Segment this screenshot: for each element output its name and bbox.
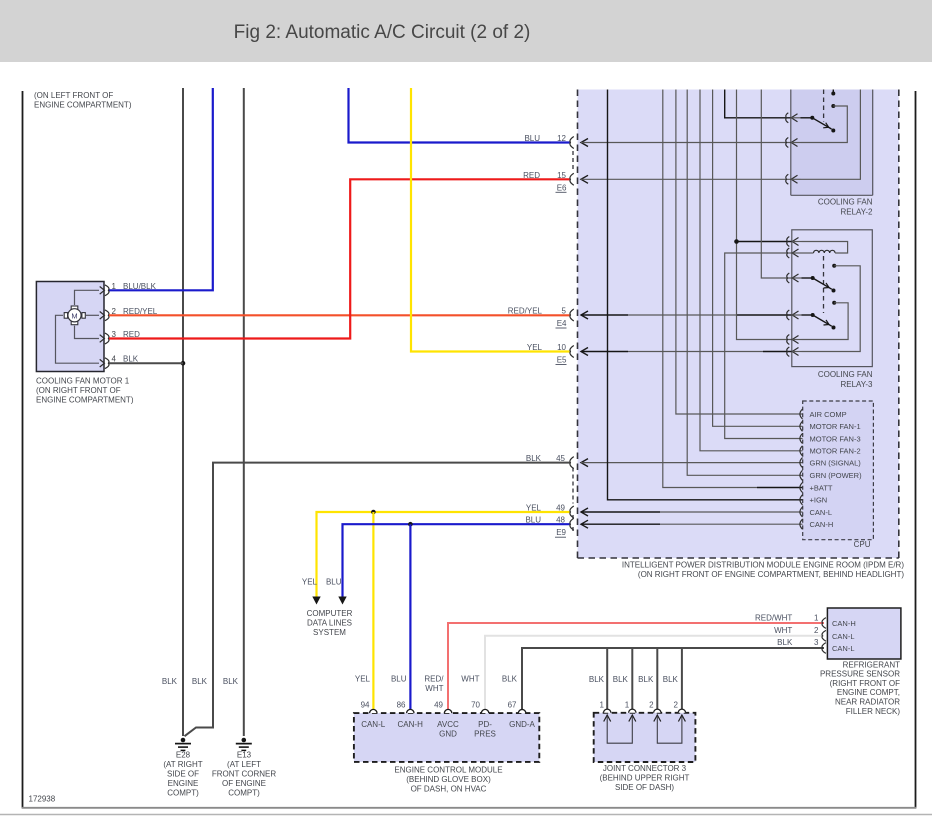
relay-2 NC contact to top xyxy=(831,90,835,96)
svg-text:WHT: WHT xyxy=(461,675,479,684)
svg-text:MOTOR FAN-3: MOTOR FAN-3 xyxy=(810,434,861,443)
junction CAN-H branch xyxy=(408,522,413,527)
svg-text:REFRIGERANT: REFRIGERANT xyxy=(843,660,900,669)
svg-text:3: 3 xyxy=(814,638,819,647)
svg-text:2: 2 xyxy=(814,626,819,635)
svg-text:WHT: WHT xyxy=(774,626,792,635)
relay-3 pin 4 connector xyxy=(787,310,802,320)
connector pin 45 (BLK) xyxy=(526,454,574,469)
caption JC3 xyxy=(600,764,690,792)
svg-text:E9: E9 xyxy=(556,528,566,537)
relay-2 switch actuation (dashed) xyxy=(823,90,825,123)
svg-text:GND-A: GND-A xyxy=(509,720,535,729)
wire lane AIR COMP xyxy=(676,90,803,415)
connector E5 pin 10 (YEL) xyxy=(527,343,574,358)
label WHT (sensor 2) xyxy=(774,626,792,635)
sensor pin 1 CAN-H xyxy=(814,613,856,628)
pin number 1 / label BLU/BLK xyxy=(112,282,157,291)
svg-text:PRES: PRES xyxy=(474,730,496,739)
svg-text:BLK: BLK xyxy=(613,675,629,684)
svg-text:ENGINE: ENGINE xyxy=(168,779,199,788)
wire IPDM pin5 to relay-3 pin4 xyxy=(581,311,792,319)
ECM pin 67 GND-A xyxy=(508,701,536,730)
svg-text:ENGINE COMPT,: ENGINE COMPT, xyxy=(837,688,900,697)
ground E13 xyxy=(212,738,277,798)
svg-text:AIR COMP: AIR COMP xyxy=(810,410,847,419)
svg-text:48: 48 xyxy=(556,516,565,525)
relay K2 cooling fan relay-2 xyxy=(791,90,873,196)
JC3 pin 1b xyxy=(625,700,636,721)
CPU pin MOTOR FAN-1 xyxy=(800,421,861,431)
svg-text:1: 1 xyxy=(814,613,819,622)
CPU pin +IGN xyxy=(800,495,827,505)
page separator line xyxy=(0,814,932,816)
wire BLK 45 from IPDM to ground E28 xyxy=(185,463,570,737)
svg-text:INTELLIGENT POWER DISTRIBUTION: INTELLIGENT POWER DISTRIBUTION MODULE EN… xyxy=(622,561,904,570)
ground E28 xyxy=(163,738,202,798)
wire lane relay-3 pin3 feed xyxy=(761,90,792,279)
wire WHT ECM pin70 to sensor pin2 xyxy=(485,636,824,710)
relay-3 coil xyxy=(802,242,848,254)
wire relay-3 pin1 stub xyxy=(737,241,792,243)
svg-text:BLK: BLK xyxy=(162,677,178,686)
svg-text:E6: E6 xyxy=(557,183,567,192)
svg-text:ENGINE COMPARTMENT): ENGINE COMPARTMENT) xyxy=(36,396,134,405)
svg-text:49: 49 xyxy=(556,504,565,513)
wire motor internal pin4 xyxy=(56,315,100,363)
svg-text:MOTOR FAN-2: MOTOR FAN-2 xyxy=(810,447,861,456)
svg-text:OF ENGINE: OF ENGINE xyxy=(222,779,266,788)
svg-text:GRN (SIGNAL): GRN (SIGNAL) xyxy=(810,458,862,467)
svg-text:49: 49 xyxy=(434,701,443,710)
svg-text:(ON RIGHT FRONT OF ENGINE COMP: (ON RIGHT FRONT OF ENGINE COMPARTMENT, B… xyxy=(638,570,904,579)
refrigerant pressure sensor box xyxy=(827,608,901,659)
CPU pin CAN-H xyxy=(800,519,833,529)
label RED/WHT (ECM 49) xyxy=(424,675,444,694)
svg-text:BLU: BLU xyxy=(524,134,540,143)
svg-text:86: 86 xyxy=(397,701,406,710)
ECM pin 94 CAN-L xyxy=(361,701,386,730)
motor pin 4 connector xyxy=(100,358,109,369)
wire IPDM pin15 to relay-2 pin3 xyxy=(581,175,791,183)
label BLK (sensor 3) xyxy=(777,638,793,647)
relay-2 pin 2 connector xyxy=(786,138,801,148)
svg-text:10: 10 xyxy=(557,343,566,352)
connector id E4 xyxy=(556,319,568,328)
relay-2 NO contact to pin2 xyxy=(801,104,848,143)
label BLK (joint pin 2b) xyxy=(663,675,679,684)
pin number 3 / label RED xyxy=(112,330,141,339)
wire BLK motor pin4 to ground junction xyxy=(109,362,183,364)
svg-text:BLU: BLU xyxy=(326,578,342,587)
svg-text:COOLING FAN: COOLING FAN xyxy=(818,370,873,379)
CPU pin +BATT xyxy=(800,483,833,493)
wire BLK joint connector pin 1b xyxy=(631,648,633,710)
relay-3 actuation line (dashed) xyxy=(823,256,825,313)
relay-3 pin 5 connector xyxy=(787,335,802,345)
svg-text:1: 1 xyxy=(600,700,605,709)
wire BLK vertical to E13 xyxy=(243,88,245,736)
wire BLK joint connector pin 2b xyxy=(681,648,683,710)
svg-text:AVCC: AVCC xyxy=(437,720,459,729)
svg-text:M: M xyxy=(71,311,77,320)
caption cooling fan motor 1 xyxy=(36,377,134,405)
motor pin 3 connector xyxy=(100,333,109,344)
ECM pin 49 AVCC GND xyxy=(434,701,459,739)
svg-text:BLK: BLK xyxy=(638,675,654,684)
svg-text:70: 70 xyxy=(471,701,480,710)
svg-text:CAN-L: CAN-L xyxy=(810,508,833,517)
caption relay-3 xyxy=(818,370,873,389)
svg-text:(AT LEFT: (AT LEFT xyxy=(227,760,261,769)
CPU pin AIR COMP xyxy=(800,409,847,419)
wire lane +IGN xyxy=(608,90,803,500)
ECM pin 70 PD-PRES xyxy=(471,701,496,739)
wire IPDM pin12 to relay-2 pin2 xyxy=(581,139,791,147)
wire lane MOTOR FAN-2 xyxy=(700,90,803,451)
svg-text:94: 94 xyxy=(361,701,370,710)
svg-text:BLK: BLK xyxy=(192,677,208,686)
label WHT (ECM 70) xyxy=(461,675,479,684)
svg-text:RED/WHT: RED/WHT xyxy=(755,613,792,622)
ECM pin 86 CAN-H xyxy=(397,701,423,730)
junction relay-3 pin1 lane xyxy=(734,239,739,244)
connector id E5 xyxy=(556,356,568,365)
wire relay-3 pin2 to CPU MOTOR FAN-3 xyxy=(725,253,803,439)
wire IPDM pin49 to CPU CAN-L xyxy=(581,508,803,516)
caption refrigerant pressure sensor xyxy=(820,660,900,716)
wire motor internal pin2 xyxy=(86,314,99,316)
wire motor internal pin1 xyxy=(75,290,100,305)
wire RED/YEL motor pin2 to IPDM pin5 xyxy=(109,314,570,316)
wire motor internal pin3 xyxy=(75,326,100,339)
caption ECM xyxy=(394,765,502,793)
svg-text:COOLING FAN: COOLING FAN xyxy=(818,197,873,206)
wire BLK joint connector pin 2a xyxy=(656,648,658,710)
svg-text:BLK: BLK xyxy=(502,675,518,684)
svg-text:CAN-H: CAN-H xyxy=(398,720,424,729)
ECM engine control module box xyxy=(354,713,539,762)
svg-text:BLU: BLU xyxy=(525,516,541,525)
CPU pin GRN (SIGNAL) xyxy=(800,458,861,468)
svg-text:RED/YEL: RED/YEL xyxy=(508,307,543,316)
svg-text:BLU: BLU xyxy=(391,675,407,684)
connector E6 pin 15 (RED) xyxy=(523,171,574,186)
label BLU (data line) xyxy=(326,578,342,587)
relay-3 pin 2 connector xyxy=(787,248,802,258)
wire IPDM pin48 to CPU CAN-H xyxy=(581,520,803,528)
connector E9 pin 48 (BLU) xyxy=(525,516,573,531)
svg-text:YEL: YEL xyxy=(527,343,543,352)
svg-text:E13: E13 xyxy=(237,751,252,760)
svg-text:(BEHIND GLOVE BOX): (BEHIND GLOVE BOX) xyxy=(406,775,491,784)
wire lane +BATT xyxy=(663,90,803,488)
JC3 link pins 1-1 xyxy=(607,716,632,743)
node computer data lines system xyxy=(307,609,353,637)
wire BLU CAN-H from IPDM to data-lines arrow xyxy=(343,524,570,598)
JC3 link pins 2-2 xyxy=(657,716,682,743)
svg-text:BLK: BLK xyxy=(777,638,793,647)
motor symbol M xyxy=(64,306,85,325)
relay-3 switch B contact to pin5 xyxy=(802,301,849,340)
relay-2 switch xyxy=(801,116,836,133)
svg-text:YEL: YEL xyxy=(355,675,371,684)
svg-text:ENGINE COMPARTMENT): ENGINE COMPARTMENT) xyxy=(34,101,132,110)
svg-text:RED/: RED/ xyxy=(424,675,444,684)
wire YEL CAN-L from IPDM to data-lines arrow xyxy=(317,512,570,599)
svg-text:DATA LINES: DATA LINES xyxy=(307,619,352,628)
svg-text:1: 1 xyxy=(112,282,117,291)
wire YEL from top to IPDM pin10 xyxy=(411,88,570,352)
svg-text:GND: GND xyxy=(439,730,457,739)
svg-text:+IGN: +IGN xyxy=(810,496,828,505)
svg-text:RELAY-3: RELAY-3 xyxy=(840,380,873,389)
IPDM E/R box xyxy=(578,90,899,559)
svg-text:BLK: BLK xyxy=(663,675,679,684)
JC3 pin 2b xyxy=(673,700,685,721)
svg-text:(BEHIND UPPER RIGHT: (BEHIND UPPER RIGHT xyxy=(600,774,690,783)
svg-text:Fig 2: Automatic A/C Circuit (: Fig 2: Automatic A/C Circuit (2 of 2) xyxy=(234,22,531,43)
label BLK (joint pin 1b) xyxy=(613,675,629,684)
svg-text:MOTOR FAN-1: MOTOR FAN-1 xyxy=(810,422,861,431)
svg-text:E28: E28 xyxy=(176,751,191,760)
sensor pin 2 CAN-L xyxy=(814,626,854,641)
svg-text:2: 2 xyxy=(649,700,654,709)
label BLK (joint pin 2a) xyxy=(638,675,654,684)
JC3 pin 1a xyxy=(600,700,611,721)
wire RED/WHT ECM pin49 to sensor pin1 xyxy=(448,623,824,710)
svg-text:67: 67 xyxy=(508,701,517,710)
relay-3 switch A contact to pin6 xyxy=(802,264,861,352)
junction CAN-L branch xyxy=(371,510,376,515)
svg-text:PD-: PD- xyxy=(478,720,492,729)
svg-text:JOINT CONNECTOR 3: JOINT CONNECTOR 3 xyxy=(603,764,687,773)
svg-text:E5: E5 xyxy=(557,356,567,365)
svg-text:+BATT: +BATT xyxy=(810,483,833,492)
wire IPDM pin10 to relay-3 pin6 xyxy=(581,348,792,356)
svg-text:CAN-L: CAN-L xyxy=(832,632,855,641)
svg-text:GRN (POWER): GRN (POWER) xyxy=(810,471,863,480)
wire relay-2 pin1 feed xyxy=(725,90,791,118)
svg-text:45: 45 xyxy=(556,454,565,463)
relay-2 pin 3 connector xyxy=(786,174,801,184)
svg-text:OF DASH, ON HVAC: OF DASH, ON HVAC xyxy=(411,784,487,793)
JC3 pin 2a xyxy=(649,700,661,721)
wire YEL CAN-L branch to ECM pin 94 xyxy=(372,512,374,710)
arrow to computer data lines (yellow) xyxy=(312,597,320,605)
relay-3 switch A xyxy=(802,276,836,293)
wire BLU/BLK vertical to motor pin 1 xyxy=(109,88,213,290)
title band xyxy=(0,0,932,62)
pin number 4 / label BLK xyxy=(112,355,139,364)
wire BLK joint connector pin 1a xyxy=(606,648,608,710)
svg-text:BLK: BLK xyxy=(589,675,605,684)
caption IPDM E/R xyxy=(622,561,904,580)
motor M1 cooling fan motor 1 xyxy=(36,282,104,372)
svg-text:(RIGHT FRONT OF: (RIGHT FRONT OF xyxy=(830,679,900,688)
connector E4 pin 5 (RED/YEL) xyxy=(508,307,574,322)
motor pin 2 connector xyxy=(100,310,109,321)
svg-text:CPU: CPU xyxy=(854,540,871,549)
relay-3 pin 1 connector xyxy=(787,237,802,247)
svg-text:RED: RED xyxy=(523,171,540,180)
label BLU (ECM 86) xyxy=(391,675,407,684)
connector E9 pin 49 (YEL) xyxy=(526,504,574,519)
wire RED motor pin3 to IPDM pin15 xyxy=(109,179,570,338)
label BLK (ECM 67) xyxy=(502,675,518,684)
sensor pin 3 CAN-L xyxy=(814,638,854,653)
svg-text:COMPT): COMPT) xyxy=(167,789,199,798)
svg-text:E4: E4 xyxy=(557,319,567,328)
CPU box xyxy=(803,401,874,540)
svg-text:CAN-L: CAN-L xyxy=(832,644,855,653)
connector E6 pin 12 (BLU) xyxy=(524,134,573,149)
label YEL (ECM 94) xyxy=(355,675,371,684)
wire lane relay-3 pin1/pin5 xyxy=(737,90,792,340)
svg-text:COOLING FAN MOTOR 1: COOLING FAN MOTOR 1 xyxy=(36,377,130,386)
relay-3 switch B xyxy=(802,313,836,330)
junction motor pin4 / ground line xyxy=(181,361,186,366)
svg-text:1: 1 xyxy=(625,700,630,709)
svg-text:ENGINE CONTROL MODULE: ENGINE CONTROL MODULE xyxy=(394,765,502,774)
relay-3 pin 6 connector xyxy=(787,347,802,357)
svg-text:SIDE OF: SIDE OF xyxy=(167,770,199,779)
svg-text:CAN-H: CAN-H xyxy=(810,520,834,529)
caption CPU xyxy=(854,540,871,549)
caption relay-2 xyxy=(818,197,873,216)
label BLK (E13 line) xyxy=(223,677,239,686)
svg-text:NEAR RADIATOR: NEAR RADIATOR xyxy=(835,698,900,707)
wire lane GRN (POWER) xyxy=(687,90,803,476)
svg-text:5: 5 xyxy=(562,307,567,316)
motor pin 1 connector xyxy=(100,285,109,296)
svg-text:(ON LEFT FRONT OF: (ON LEFT FRONT OF xyxy=(34,91,113,100)
wire IPDM pin45 to CPU GRN (SIGNAL) xyxy=(581,459,803,467)
svg-text:(AT RIGHT: (AT RIGHT xyxy=(163,760,202,769)
wire lane MOTOR FAN-1 xyxy=(713,90,803,427)
svg-text:COMPT): COMPT) xyxy=(228,789,260,798)
CPU pin MOTOR FAN-2 xyxy=(800,446,861,456)
svg-text:12: 12 xyxy=(557,134,566,143)
svg-text:BLU/BLK: BLU/BLK xyxy=(123,282,157,291)
svg-text:CAN-L: CAN-L xyxy=(361,720,386,729)
connector id E6 xyxy=(556,151,574,192)
figure id 172938 xyxy=(29,795,56,804)
svg-text:YEL: YEL xyxy=(526,504,542,513)
svg-text:15: 15 xyxy=(557,171,566,180)
wire BLU from top to IPDM pin12 xyxy=(349,88,570,143)
relay K3 cooling fan relay-3 xyxy=(792,230,873,367)
wire BLK ECM pin67 to sensor pin3 xyxy=(522,648,824,710)
svg-text:SIDE OF DASH): SIDE OF DASH) xyxy=(615,783,674,792)
svg-text:PRESSURE SENSOR: PRESSURE SENSOR xyxy=(820,670,900,679)
svg-text:SYSTEM: SYSTEM xyxy=(313,628,346,637)
svg-text:(ON RIGHT FRONT OF: (ON RIGHT FRONT OF xyxy=(36,386,121,395)
svg-text:2: 2 xyxy=(673,700,678,709)
svg-text:RELAY-2: RELAY-2 xyxy=(840,207,873,216)
svg-text:BLK: BLK xyxy=(223,677,239,686)
svg-text:172938: 172938 xyxy=(29,795,56,804)
wire BLK vertical to E28 xyxy=(182,88,184,736)
joint connector JC3 box xyxy=(594,713,696,762)
connector id E9 xyxy=(555,468,573,538)
label RED/WHT (sensor 1) xyxy=(755,613,792,622)
CPU pin CAN-L xyxy=(800,507,832,517)
pin number 2 / label RED/YEL xyxy=(112,307,158,316)
label YEL (data line) xyxy=(302,578,318,587)
label BLK (IPDM 45 line) xyxy=(192,677,208,686)
wire BLU CAN-H branch to ECM pin 86 xyxy=(409,524,411,709)
svg-text:WHT: WHT xyxy=(425,684,443,693)
wire relay-2 pin3 riser xyxy=(801,90,861,180)
svg-text:COMPUTER: COMPUTER xyxy=(307,609,353,618)
relay-3 pin 3 connector xyxy=(787,273,802,283)
label BLK (E28 line) xyxy=(162,677,178,686)
CPU pin MOTOR FAN-3 xyxy=(800,434,861,444)
CPU pin GRN (POWER) xyxy=(800,470,862,480)
svg-text:FILLER NECK): FILLER NECK) xyxy=(846,707,901,716)
label BLK (joint pin 1a) xyxy=(589,675,605,684)
svg-text:CAN-H: CAN-H xyxy=(832,619,856,628)
svg-text:YEL: YEL xyxy=(302,578,318,587)
arrow to computer data lines (blue) xyxy=(338,597,346,605)
note: on left front of engine compartment xyxy=(34,91,132,110)
svg-text:FRONT CORNER: FRONT CORNER xyxy=(212,770,277,779)
svg-text:BLK: BLK xyxy=(526,454,542,463)
relay-2 pin 1 connector xyxy=(786,113,801,123)
